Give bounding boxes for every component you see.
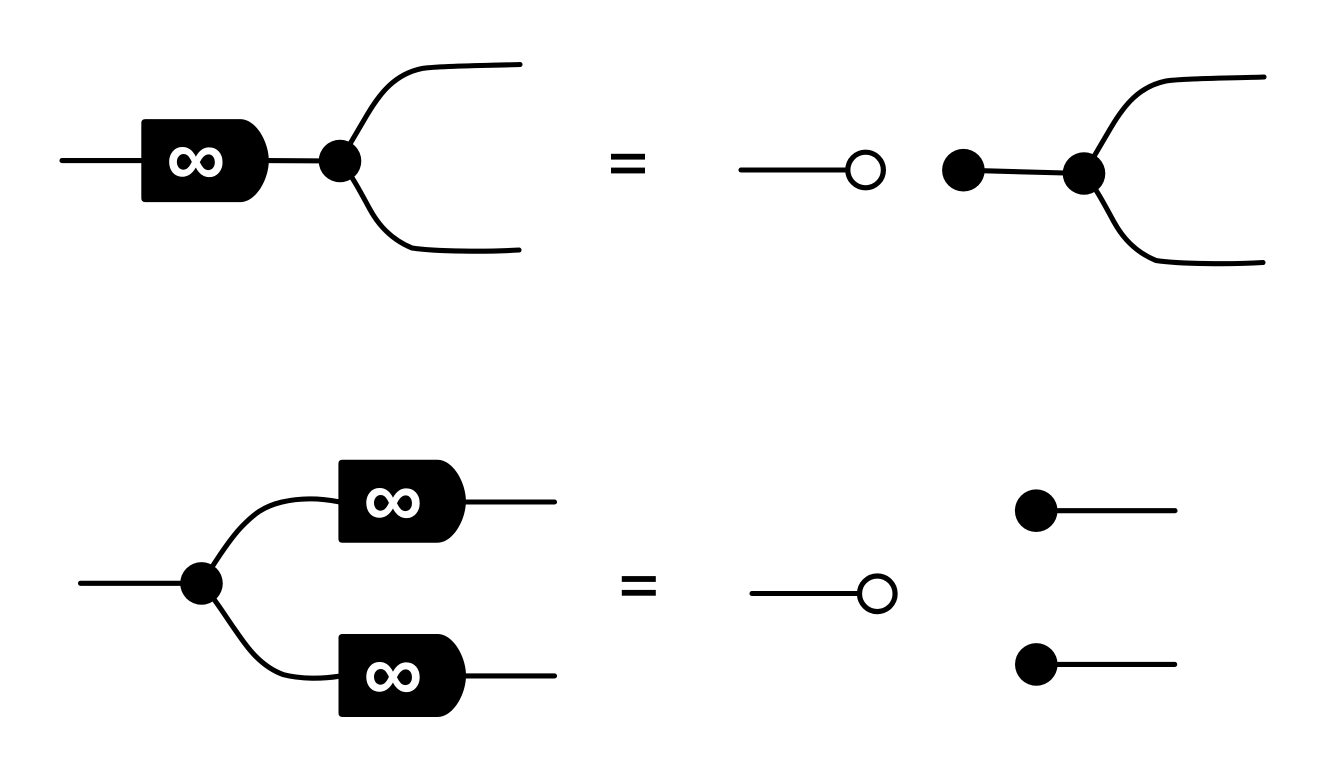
wire: input into infinity box (top-left): [62, 158, 146, 163]
wire: upper branch of copy (top-right): [1084, 77, 1264, 174]
infinity box lower (bottom-left): [339, 626, 467, 719]
wire: upper branch to infinity box (bottom-left): [202, 499, 339, 583]
wire: upper branch of copy (top-left): [340, 65, 520, 162]
zero dot (top-right): [942, 149, 985, 192]
copy dot (top-right): [1063, 152, 1106, 195]
wire: input into delete node (bottom-right): [752, 591, 859, 596]
delete node: white circle (top-right): [848, 152, 884, 188]
wire: output of upper infinity box (bottom-left): [464, 499, 555, 504]
delete node: white circle (bottom-right): [860, 576, 896, 612]
wire: lower branch of copy (top-left): [340, 161, 519, 251]
wire: input into delete node (top-right): [741, 167, 848, 172]
wire: output of upper zero dot (bottom-right): [1036, 508, 1175, 513]
infinity box (top-left): [141, 111, 268, 204]
svg-text:∞: ∞: [363, 452, 422, 545]
zero dot lower (bottom-right): [1015, 643, 1058, 686]
equals sign (top): [611, 154, 645, 174]
wire: output of lower zero dot (bottom-right): [1036, 662, 1174, 667]
wire: lower branch of copy (top-right): [1084, 174, 1263, 264]
wire: zero dot to copy dot (top-right): [963, 170, 1084, 173]
svg-text:∞: ∞: [363, 626, 422, 719]
svg-text:∞: ∞: [166, 111, 225, 204]
copy dot (top-left): [319, 140, 362, 183]
wire: input into copy dot (bottom-left): [81, 581, 203, 586]
wire: infinity box to copy dot (top-left): [266, 158, 340, 163]
zero dot upper (bottom-right): [1015, 489, 1058, 532]
equals sign (bottom): [622, 576, 656, 596]
wire: lower branch to infinity box (bottom-left): [202, 583, 339, 678]
wire: output of lower infinity box (bottom-left): [464, 673, 555, 678]
copy dot (bottom-left): [180, 562, 223, 605]
infinity box upper (bottom-left): [338, 452, 466, 545]
